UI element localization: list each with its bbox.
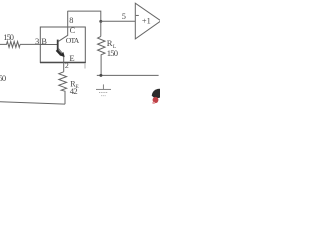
ground rail right bbox=[97, 74, 159, 76]
svg-text:42: 42 bbox=[70, 86, 78, 96]
wire base lead to box bbox=[20, 43, 40, 45]
svg-text:R: R bbox=[107, 38, 113, 48]
watermark tiny strikethrough text bbox=[96, 88, 111, 90]
transistor collector lead bbox=[59, 11, 68, 41]
svg-text:8: 8 bbox=[69, 16, 73, 25]
box bottom edge (darker scan stroke) bbox=[40, 62, 86, 64]
svg-text:5: 5 bbox=[122, 12, 126, 21]
transistor emitter lead with arrow bbox=[58, 48, 63, 71]
OTA device box U1 bbox=[40, 27, 85, 62]
svg-text:3: 3 bbox=[35, 36, 39, 46]
op-amp noninverting input marker bbox=[136, 14, 139, 16]
resistor RL lead bbox=[100, 21, 102, 36]
transistor base bar bbox=[57, 40, 59, 51]
wire base lead inside box bbox=[40, 44, 57, 46]
watermark pink fringe bbox=[152, 102, 155, 104]
resistor 150 (left, input) bbox=[0, 41, 20, 47]
op-amp U2 buffer bbox=[135, 3, 161, 39]
svg-text:2: 2 bbox=[65, 61, 69, 70]
svg-text:150: 150 bbox=[107, 48, 118, 58]
svg-text:OTA: OTA bbox=[66, 36, 80, 45]
svg-text:150: 150 bbox=[3, 33, 13, 42]
svg-text:C: C bbox=[70, 26, 76, 35]
node junction dot (collector/RL/op-amp) bbox=[99, 20, 102, 23]
wire node to op-amp input bbox=[101, 20, 136, 22]
svg-text:50: 50 bbox=[0, 73, 6, 83]
watermark dark swoosh logo bbox=[152, 89, 160, 98]
resistor RL zigzag bbox=[98, 36, 105, 75]
ground rail bottom left bbox=[0, 102, 65, 104]
emitter arrow bold stroke bbox=[57, 50, 62, 55]
svg-text:E: E bbox=[69, 53, 74, 63]
svg-text:+1: +1 bbox=[142, 16, 151, 25]
junction dot RL/rail bbox=[99, 74, 102, 77]
emitter arrowhead bbox=[60, 52, 65, 57]
watermark red ball logo bbox=[153, 97, 159, 103]
wire collector rail to node bbox=[68, 11, 101, 21]
scan smudge below box corner bbox=[84, 63, 86, 68]
resistor RE zigzag bbox=[59, 72, 67, 104]
